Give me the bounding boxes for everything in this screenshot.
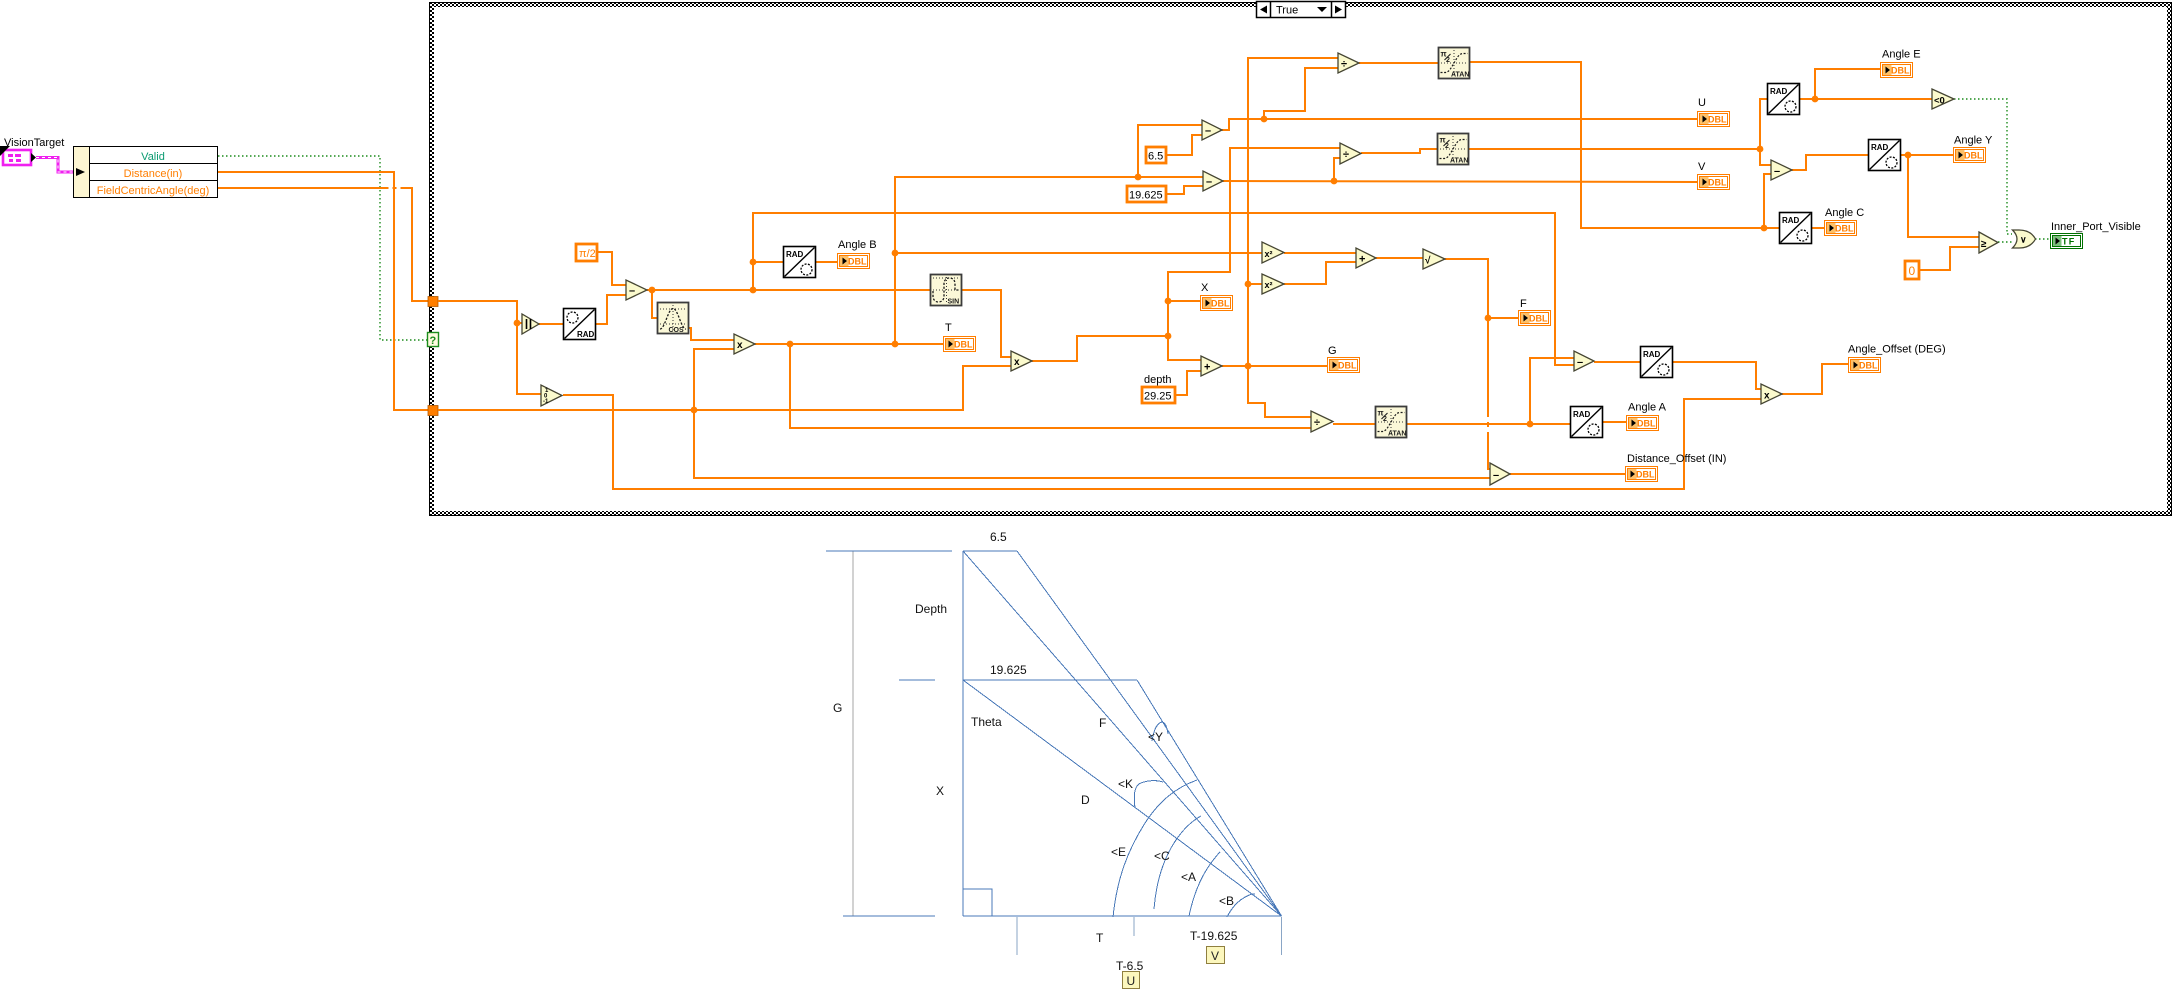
svg-text:<0: <0 <box>1934 96 1945 107</box>
svg-text:G: G <box>1328 345 1337 357</box>
svg-text:X: X <box>1201 282 1209 294</box>
svg-text:Angle E: Angle E <box>1882 49 1921 61</box>
svg-text:True: True <box>1276 5 1298 17</box>
svg-text:x: x <box>1014 357 1020 368</box>
svg-text:0: 0 <box>1909 264 1916 278</box>
svg-text:+: + <box>1359 254 1365 266</box>
svg-text:x²: x² <box>1265 249 1273 259</box>
svg-text:Depth: Depth <box>915 602 947 616</box>
svg-text:FieldCentricAngle(deg): FieldCentricAngle(deg) <box>97 185 210 197</box>
svg-text:x²: x² <box>1265 280 1273 290</box>
svg-text:Angle C: Angle C <box>1825 207 1864 219</box>
svg-text:<K: <K <box>1118 777 1133 791</box>
svg-text:depth: depth <box>1144 374 1172 386</box>
svg-text:–: – <box>1577 357 1583 369</box>
svg-text:19.625: 19.625 <box>1129 190 1163 202</box>
svg-text:6.5: 6.5 <box>1148 151 1163 163</box>
svg-text:–: – <box>1774 166 1780 178</box>
svg-text:Valid: Valid <box>141 151 165 163</box>
svg-text:<A: <A <box>1181 870 1196 884</box>
svg-text:<C: <C <box>1154 849 1170 863</box>
svg-text:Angle A: Angle A <box>1628 402 1667 414</box>
svg-text:29.25: 29.25 <box>1144 391 1172 403</box>
svg-text:√: √ <box>1425 256 1431 267</box>
svg-text:–: – <box>629 285 635 297</box>
svg-text:U: U <box>1127 974 1136 988</box>
svg-text:<B: <B <box>1219 894 1234 908</box>
svg-text:-1: -1 <box>543 399 549 405</box>
svg-text:T-6.5: T-6.5 <box>1116 959 1144 973</box>
svg-text:D: D <box>1081 793 1090 807</box>
svg-text:+: + <box>1204 362 1210 374</box>
svg-text:–: – <box>1206 176 1212 188</box>
svg-text:Distance_Offset (IN): Distance_Offset (IN) <box>1627 453 1726 465</box>
svg-text:V: V <box>1211 949 1219 963</box>
svg-text:Angle Y: Angle Y <box>1954 135 1993 147</box>
svg-text:x: x <box>1764 391 1770 402</box>
svg-text:∨: ∨ <box>2020 235 2027 245</box>
svg-text:Angle B: Angle B <box>838 239 877 251</box>
svg-text:π/2: π/2 <box>579 248 596 260</box>
svg-text:<Y: <Y <box>1148 730 1163 744</box>
svg-text:U: U <box>1698 97 1706 109</box>
svg-text:G: G <box>833 701 842 715</box>
svg-text:Inner_Port_Visible: Inner_Port_Visible <box>2051 221 2141 233</box>
svg-text:÷: ÷ <box>1314 417 1320 429</box>
svg-text:F: F <box>1099 716 1106 730</box>
svg-text:?: ? <box>430 335 437 347</box>
svg-text:T-19.625: T-19.625 <box>1190 929 1238 943</box>
svg-text:<E: <E <box>1111 845 1126 859</box>
svg-text:T: T <box>1096 931 1104 945</box>
svg-text:F: F <box>1520 298 1527 310</box>
svg-text:Angle_Offset (DEG): Angle_Offset (DEG) <box>1848 344 1946 356</box>
svg-text:6.5: 6.5 <box>990 530 1007 544</box>
svg-text:Theta: Theta <box>971 715 1002 729</box>
svg-text:–: – <box>1205 125 1211 137</box>
svg-text:V: V <box>1698 161 1706 173</box>
svg-text:Distance(in): Distance(in) <box>124 168 183 180</box>
svg-text:X: X <box>936 784 944 798</box>
svg-text:T: T <box>945 322 952 334</box>
svg-text:÷: ÷ <box>1343 149 1349 161</box>
svg-text:÷: ÷ <box>1341 59 1347 71</box>
svg-text:x: x <box>737 340 743 351</box>
svg-text:19.625: 19.625 <box>990 663 1027 677</box>
svg-text:–: – <box>1493 470 1499 482</box>
svg-text:VisionTarget: VisionTarget <box>4 137 64 149</box>
svg-text:≥: ≥ <box>1981 239 1987 250</box>
